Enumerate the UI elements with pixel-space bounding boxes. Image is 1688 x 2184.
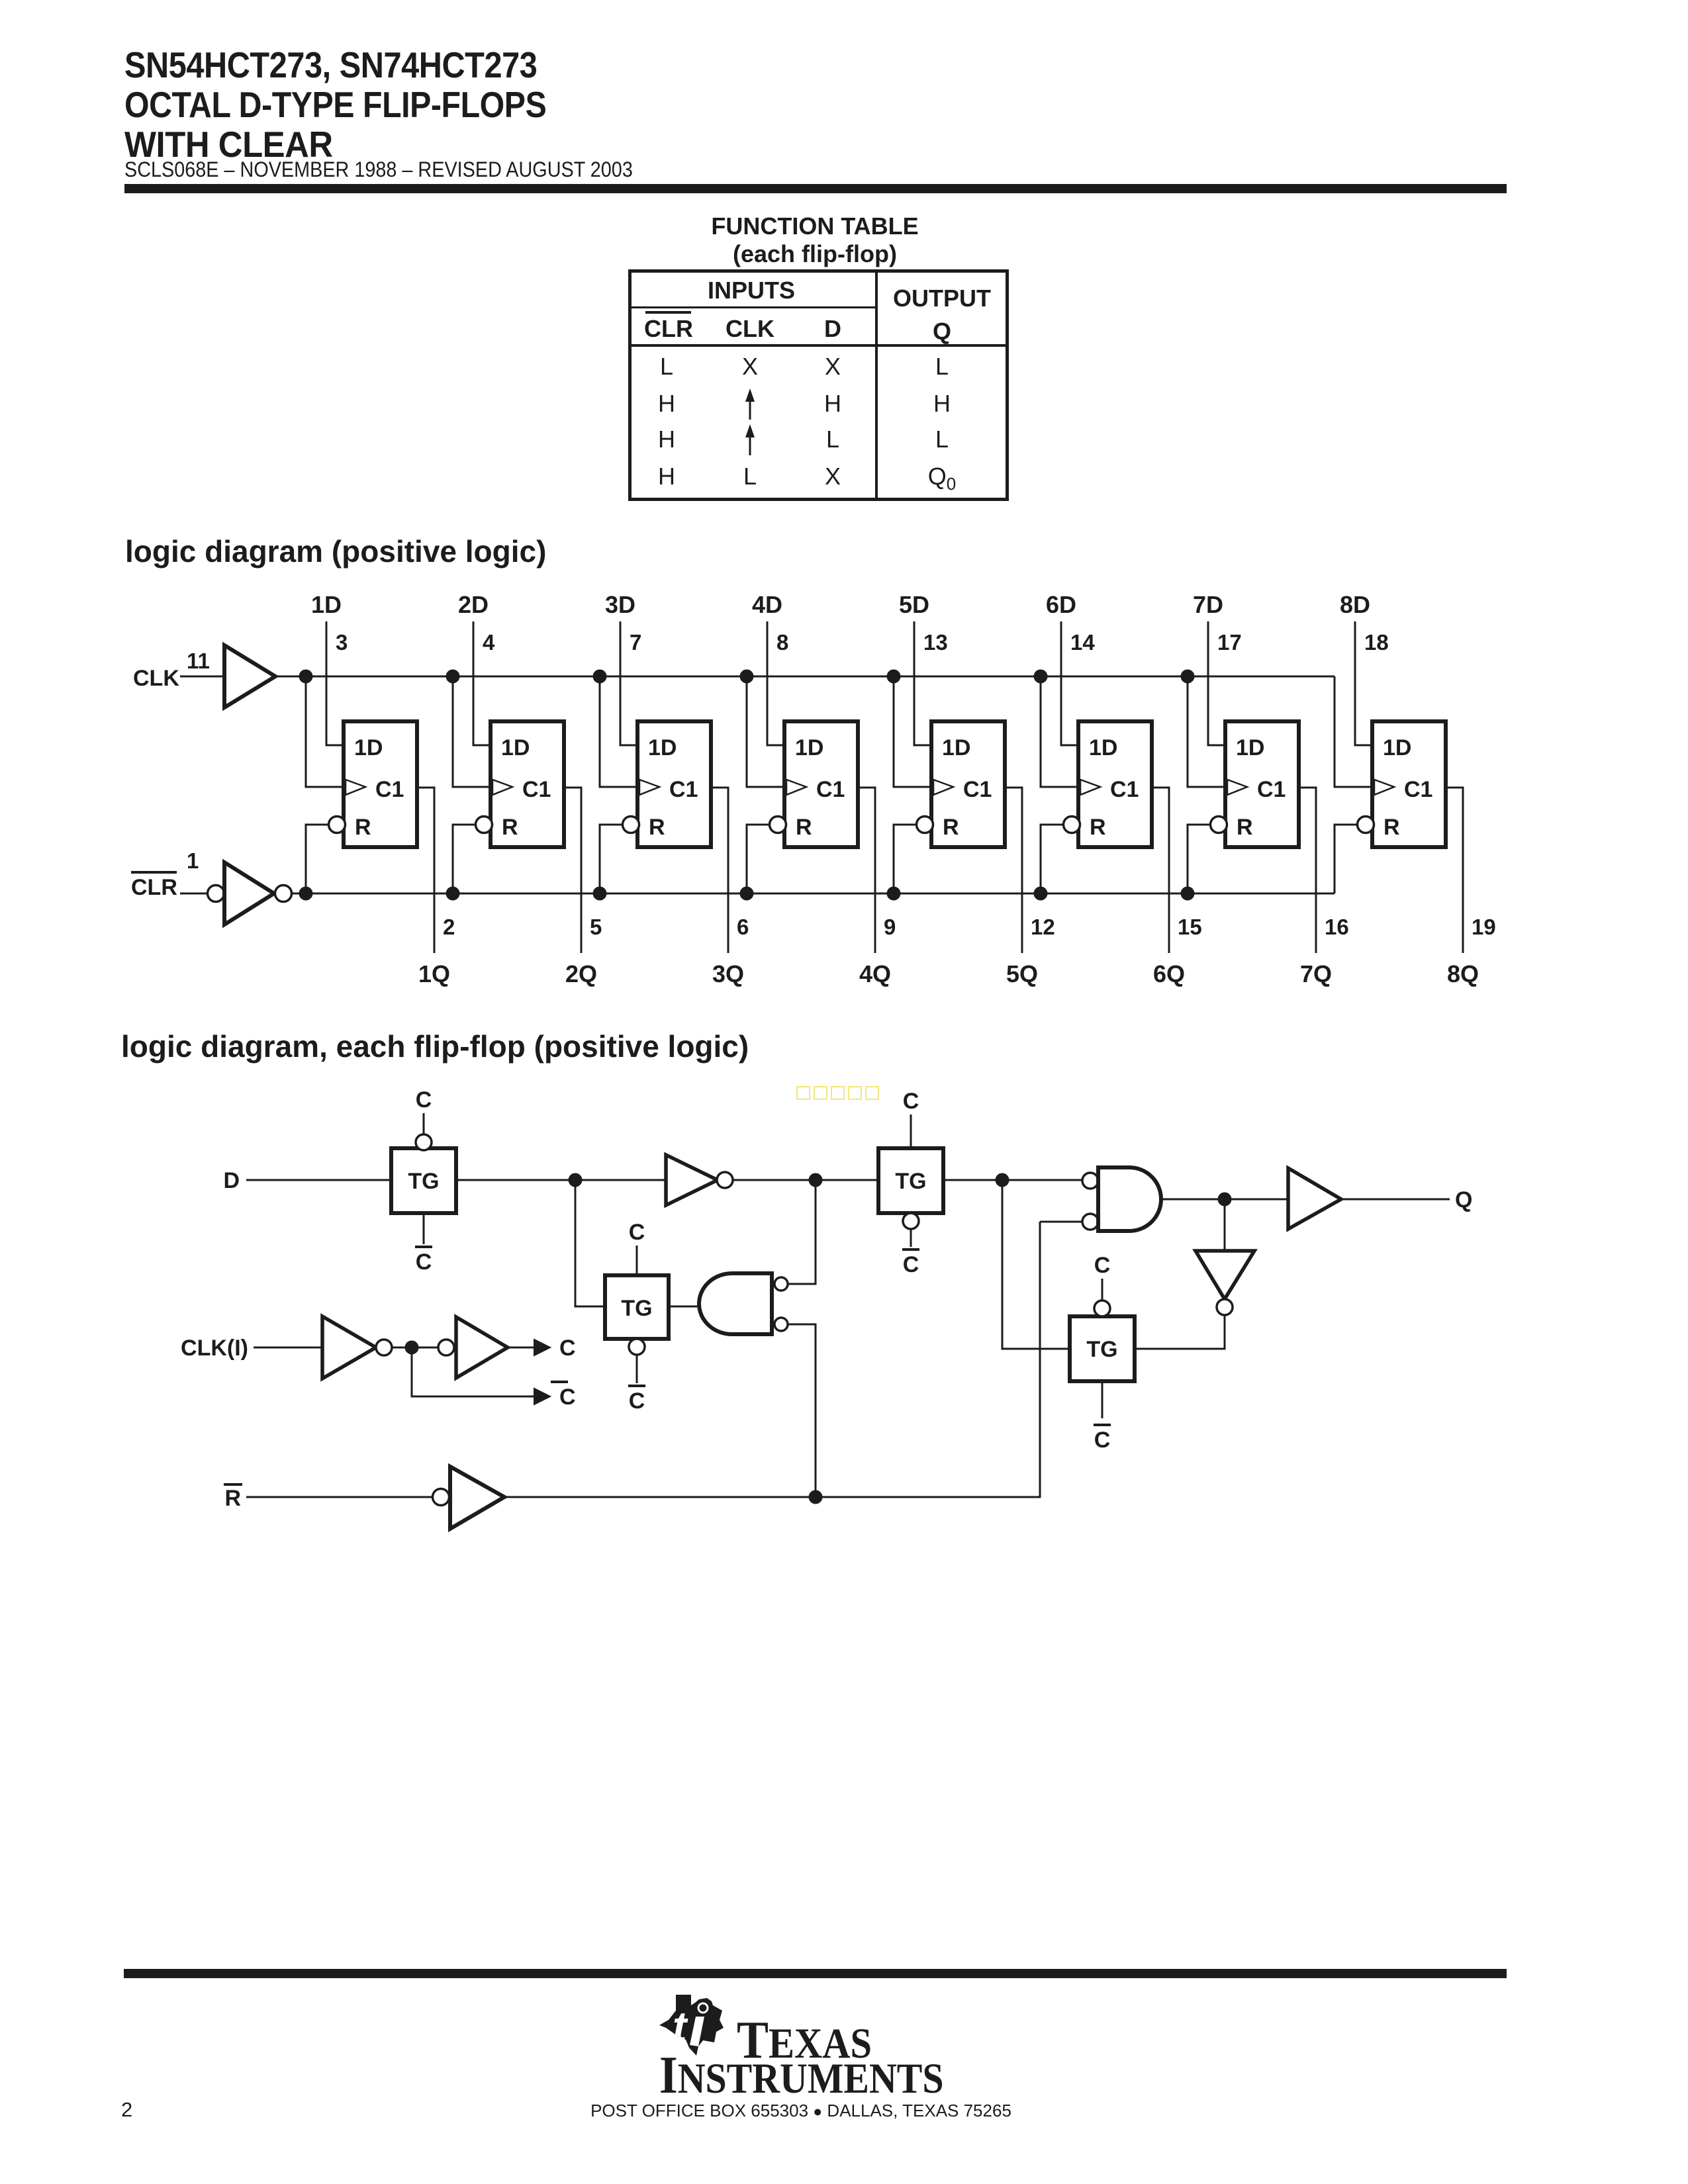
svg-text:C: C <box>1094 1253 1111 1278</box>
svg-text:1D: 1D <box>1089 735 1117 760</box>
wire node A to TG3 input <box>575 1180 605 1306</box>
TI logo TEXAS <box>737 2011 872 2071</box>
svg-text:13: 13 <box>923 630 948 655</box>
wire 7Q output (pin 16) <box>1299 788 1316 953</box>
wire R-bar buffered to AND gate <box>504 1222 1040 1504</box>
table header INPUTS <box>632 277 871 304</box>
wire CLK branch to flip-flop FF7 <box>1181 670 1226 788</box>
transmission gate TG4 <box>1070 1300 1135 1381</box>
transmission gate TG3 <box>605 1275 669 1355</box>
svg-text:C: C <box>559 1336 576 1361</box>
table header underline <box>632 344 1006 347</box>
svg-text:1D: 1D <box>648 735 677 760</box>
svg-text:1D: 1D <box>795 735 823 760</box>
net R-bar input label <box>224 1484 242 1511</box>
inverter U7 on CLK(I) <box>322 1316 392 1379</box>
wire CLR branch to FF8 R <box>1335 825 1358 893</box>
wire TG2 output to node F <box>943 1173 1082 1187</box>
svg-text:TG: TG <box>1086 1337 1117 1362</box>
svg-text:1D: 1D <box>501 735 530 760</box>
svg-text:C: C <box>416 1087 432 1113</box>
svg-text:R: R <box>1383 815 1400 840</box>
svg-text:1D: 1D <box>311 591 342 618</box>
AND gate U3 <box>1082 1167 1161 1231</box>
TI logo INSTRUMENTS <box>659 2046 944 2106</box>
flip-flop FF5 <box>917 721 1006 847</box>
pin 18 label <box>1364 630 1389 655</box>
net 4Q output label <box>859 960 891 987</box>
svg-text:R: R <box>1237 815 1253 840</box>
buffer CLK input (pin 11) <box>133 645 275 707</box>
inverter CLR input (pin 1) <box>131 848 292 925</box>
pin 16 label <box>1325 915 1349 939</box>
wire TG1 output to node A <box>456 1173 583 1187</box>
table header D <box>793 315 872 343</box>
svg-text:19: 19 <box>1472 915 1496 939</box>
pin 6 label <box>737 915 749 939</box>
svg-text:TG: TG <box>895 1169 926 1194</box>
net 2D input label <box>458 591 489 618</box>
svg-text:6: 6 <box>737 915 749 939</box>
table clock edge arrows <box>737 382 770 468</box>
wire node H to C-bar arrow <box>412 1347 576 1410</box>
svg-text:1: 1 <box>187 848 199 873</box>
svg-text:C1: C1 <box>522 777 551 802</box>
svg-text:4D: 4D <box>752 591 782 618</box>
wire 7D input <box>1208 621 1225 745</box>
wire CLR branch to FF4 R <box>740 825 771 901</box>
svg-text:C: C <box>903 1252 919 1277</box>
svg-text:2: 2 <box>443 915 455 939</box>
svg-text:C1: C1 <box>963 777 992 802</box>
svg-text:C: C <box>1094 1428 1111 1453</box>
svg-text:8D: 8D <box>1340 591 1370 618</box>
section heading: logic diagram <box>125 533 546 569</box>
node C-bar control of TG1 <box>415 1213 432 1275</box>
footer address <box>470 2101 1132 2121</box>
svg-text:R: R <box>1090 815 1106 840</box>
wire U7 to node H <box>392 1341 438 1355</box>
footer rule <box>124 1969 1507 1978</box>
inverter U5 feedback (pointing down) <box>1196 1199 1254 1315</box>
wire NAND U6 bottom output to node R <box>788 1324 816 1497</box>
wire CLK branch to flip-flop FF1 <box>299 670 344 788</box>
pin 15 label <box>1178 915 1202 939</box>
node C-bar control of TG3 <box>628 1355 645 1414</box>
pin 17 label <box>1217 630 1242 655</box>
svg-text:1D: 1D <box>354 735 383 760</box>
svg-text:C: C <box>629 1388 645 1414</box>
net 7D input label <box>1193 591 1223 618</box>
section heading: logic diagram each flip-flop <box>121 1028 749 1064</box>
svg-text:C1: C1 <box>816 777 845 802</box>
svg-text:1D: 1D <box>1236 735 1264 760</box>
node C control of TG2 <box>903 1089 919 1148</box>
svg-text:11: 11 <box>187 649 210 673</box>
net 3Q output label <box>712 960 744 987</box>
net 1D input label <box>311 591 342 618</box>
transmission gate TG1 <box>391 1134 456 1213</box>
wire CLR branch to FF1 R <box>299 825 330 901</box>
wire 8D input <box>1355 621 1372 745</box>
wire 6Q output (pin 15) <box>1152 788 1169 953</box>
svg-text:R: R <box>796 815 812 840</box>
node C control of TG1 <box>416 1087 432 1134</box>
svg-text:16: 16 <box>1325 915 1349 939</box>
net 5Q output label <box>1006 960 1038 987</box>
net 5D input label <box>899 591 929 618</box>
wire CLR branch to FF7 R <box>1181 825 1211 901</box>
inverter U9 on R-bar <box>246 1467 504 1529</box>
wire inverter U5 to TG4 <box>1135 1315 1225 1349</box>
document subtitle <box>124 158 633 182</box>
svg-text:CLK(I): CLK(I) <box>181 1336 248 1361</box>
table INPUTS underline <box>632 306 875 308</box>
buffer U4 output Q <box>1288 1168 1472 1229</box>
svg-text:5Q: 5Q <box>1006 960 1038 987</box>
net 6Q output label <box>1153 960 1185 987</box>
pin 14 label <box>1070 630 1095 655</box>
svg-text:C1: C1 <box>375 777 404 802</box>
wire 5Q output (pin 12) <box>1005 788 1022 953</box>
wire 2Q output (pin 5) <box>564 788 581 953</box>
svg-text:C: C <box>559 1385 576 1410</box>
wire CLR branch to FF5 R <box>887 825 917 901</box>
svg-text:6Q: 6Q <box>1153 960 1185 987</box>
wire 5D input <box>914 621 931 745</box>
svg-text:R: R <box>224 1486 241 1511</box>
page number <box>121 2098 132 2122</box>
transmission gate TG2 <box>878 1148 943 1229</box>
net CLK(I) input label <box>181 1336 248 1361</box>
wire D input <box>246 1179 391 1181</box>
svg-text:2Q: 2Q <box>565 960 597 987</box>
svg-text:12: 12 <box>1031 915 1055 939</box>
wire TG4 output feedback to node F <box>1002 1180 1070 1349</box>
svg-text:1Q: 1Q <box>418 960 450 987</box>
wire 4Q output (pin 9) <box>858 788 875 953</box>
wire 8Q output (pin 19) <box>1446 788 1463 953</box>
node C-bar control of TG2 <box>902 1229 919 1277</box>
svg-text:CLR: CLR <box>131 875 177 900</box>
flip-flop FF1 <box>329 721 418 847</box>
net 8D input label <box>1340 591 1370 618</box>
TI logo Texas glyph <box>659 1995 726 2060</box>
wire AND output to node G <box>1161 1193 1288 1206</box>
wire TG3 to NAND U6 <box>669 1306 702 1308</box>
svg-text:1D: 1D <box>942 735 970 760</box>
svg-text:17: 17 <box>1217 630 1242 655</box>
wire NAND U6 top output to node B <box>788 1180 816 1284</box>
net 8Q output label <box>1447 960 1479 987</box>
wire CLR branch to FF2 R <box>446 825 477 901</box>
wire 6D input <box>1061 621 1078 745</box>
svg-text:t: t <box>673 2003 688 2050</box>
svg-text:8Q: 8Q <box>1447 960 1479 987</box>
pin 9 label <box>884 915 896 939</box>
wire 2D input <box>473 621 491 745</box>
wire 3Q output (pin 6) <box>711 788 728 953</box>
svg-text:D: D <box>223 1168 240 1193</box>
header rule <box>124 184 1507 193</box>
svg-text:3D: 3D <box>605 591 635 618</box>
svg-text:1D: 1D <box>1383 735 1411 760</box>
flip-flop FF7 <box>1211 721 1299 847</box>
svg-text:3Q: 3Q <box>712 960 744 987</box>
watermark <box>796 1086 879 1100</box>
flip-flop FF3 <box>623 721 712 847</box>
pin 13 label <box>923 630 948 655</box>
pin 19 label <box>1472 915 1496 939</box>
svg-text:C: C <box>903 1089 919 1114</box>
net D input label <box>223 1168 240 1193</box>
wire CLK branch to flip-flop FF6 <box>1034 670 1079 788</box>
svg-text:TG: TG <box>408 1169 439 1194</box>
net 7Q output label <box>1300 960 1332 987</box>
flip-flop FF6 <box>1064 721 1152 847</box>
svg-text:4: 4 <box>483 630 495 655</box>
svg-text:R: R <box>355 815 371 840</box>
pin 12 label <box>1031 915 1055 939</box>
wire 3D input <box>620 621 637 745</box>
svg-text:C: C <box>629 1220 645 1245</box>
svg-text:5D: 5D <box>899 591 929 618</box>
pin 7 label <box>630 630 641 655</box>
svg-text:C1: C1 <box>1110 777 1139 802</box>
node C control of TG3 <box>629 1220 645 1275</box>
wire CLR branch to FF3 R <box>593 825 624 901</box>
node C control of TG4 <box>1094 1253 1111 1300</box>
net 1Q output label <box>418 960 450 987</box>
svg-text:7Q: 7Q <box>1300 960 1332 987</box>
wire CLK branch to flip-flop FF2 <box>446 670 491 788</box>
wire AND bottom input <box>1040 1221 1082 1223</box>
svg-text:18: 18 <box>1364 630 1389 655</box>
table header OUTPUT Q <box>876 282 1008 348</box>
svg-text:5: 5 <box>590 915 602 939</box>
inverter U2 on D path <box>575 1155 733 1205</box>
svg-text:7: 7 <box>630 630 641 655</box>
svg-text:2D: 2D <box>458 591 489 618</box>
svg-text:TG: TG <box>621 1296 652 1321</box>
flip-flop FF8 <box>1358 721 1446 847</box>
wire 1D input <box>326 621 344 745</box>
flip-flop FF2 <box>476 721 565 847</box>
svg-text:14: 14 <box>1070 630 1095 655</box>
wire CLK branch to flip-flop FF3 <box>593 670 638 788</box>
document title <box>124 45 605 164</box>
net 3D input label <box>605 591 635 618</box>
svg-text:Q: Q <box>1455 1187 1472 1212</box>
wire inverter U2 to node B <box>733 1173 878 1187</box>
NAND gate U6 (mirrored, dual inverted outputs) <box>699 1273 788 1334</box>
wire CLR bus <box>291 893 1335 895</box>
svg-text:4Q: 4Q <box>859 960 891 987</box>
pin 2 label <box>443 915 455 939</box>
node C-bar control of TG4 <box>1094 1381 1111 1453</box>
flip-flop FF4 <box>770 721 859 847</box>
pin 5 label <box>590 915 602 939</box>
svg-text:R: R <box>502 815 518 840</box>
wire 4D input <box>767 621 784 745</box>
net 2Q output label <box>565 960 597 987</box>
wire CLK(I) input <box>254 1347 322 1349</box>
table divider vertical <box>875 273 878 498</box>
function table title <box>616 212 1013 268</box>
wire CLK branch to flip-flop FF5 <box>887 670 932 788</box>
function table <box>628 269 1009 501</box>
table rows <box>632 353 1006 500</box>
svg-text:7D: 7D <box>1193 591 1223 618</box>
wire CLK branch to flip-flop FF8 <box>1335 676 1372 787</box>
wire CLR branch to FF6 R <box>1034 825 1064 901</box>
svg-text:15: 15 <box>1178 915 1202 939</box>
table header CLK <box>710 315 790 343</box>
wire CLK bus <box>275 676 1335 678</box>
pin 3 label <box>336 630 348 655</box>
svg-text:9: 9 <box>884 915 896 939</box>
svg-text:6D: 6D <box>1046 591 1076 618</box>
pin 4 label <box>483 630 495 655</box>
wire 1Q output (pin 2) <box>417 788 434 953</box>
net 4D input label <box>752 591 782 618</box>
svg-text:3: 3 <box>336 630 348 655</box>
net 6D input label <box>1046 591 1076 618</box>
svg-text:C1: C1 <box>1404 777 1432 802</box>
svg-text:R: R <box>649 815 665 840</box>
svg-text:C: C <box>416 1250 432 1275</box>
buffer U8 generating C <box>438 1317 576 1378</box>
svg-text:C1: C1 <box>1257 777 1286 802</box>
svg-text:C1: C1 <box>669 777 698 802</box>
svg-text:CLK: CLK <box>133 666 179 691</box>
svg-text:R: R <box>943 815 959 840</box>
svg-text:8: 8 <box>776 630 788 655</box>
wire CLK branch to flip-flop FF4 <box>740 670 785 788</box>
pin 8 label <box>776 630 788 655</box>
table header CLR <box>632 315 706 343</box>
